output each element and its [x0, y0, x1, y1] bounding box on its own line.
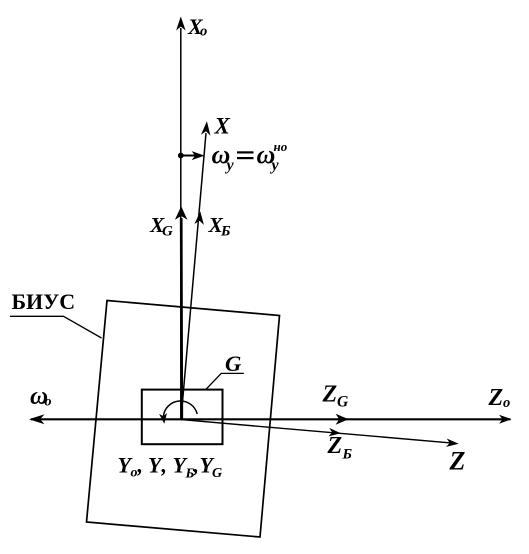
svg-text:БИУС: БИУС	[12, 289, 76, 314]
svg-text:o: o	[200, 24, 207, 40]
svg-text:X: X	[214, 114, 231, 139]
svg-text:Б: Б	[342, 447, 353, 463]
svg-text:G: G	[212, 466, 222, 481]
svg-text:,: ,	[137, 453, 144, 478]
svg-text:G: G	[225, 351, 241, 376]
svg-text:Z: Z	[322, 382, 338, 408]
svg-text:,: ,	[193, 453, 200, 478]
svg-text:y: y	[270, 157, 280, 174]
svg-text:Б: Б	[220, 224, 231, 240]
svg-text:Z: Z	[327, 433, 343, 459]
svg-text:Z: Z	[449, 447, 466, 476]
svg-text:G: G	[337, 394, 349, 411]
svg-text:но: но	[274, 139, 288, 154]
svg-text:y: y	[225, 157, 235, 174]
svg-text:,: ,	[161, 453, 168, 478]
svg-text:G: G	[162, 224, 173, 240]
svg-text:o: o	[131, 466, 138, 481]
svg-text:o: o	[45, 395, 52, 410]
svg-text:o: o	[503, 395, 510, 411]
svg-text:Z: Z	[488, 385, 504, 411]
